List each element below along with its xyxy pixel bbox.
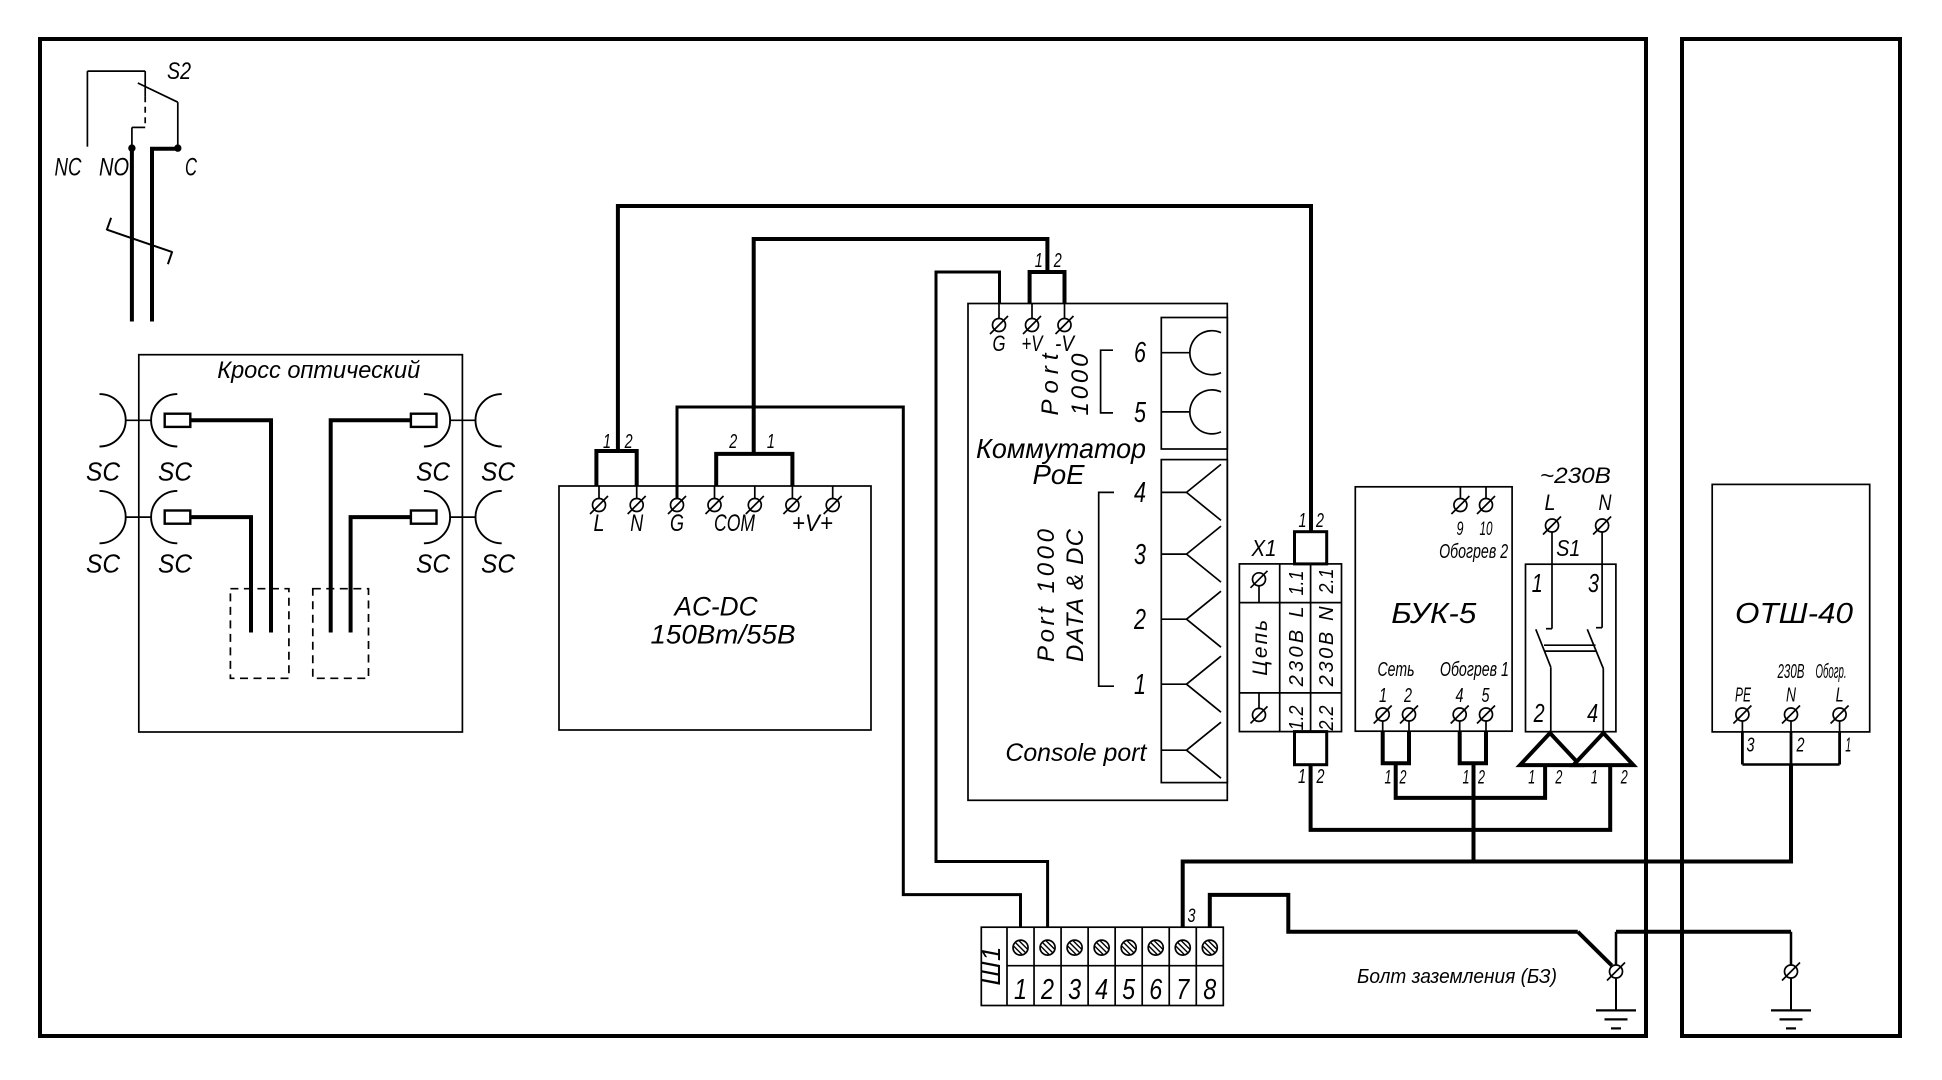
svg-text:6: 6 bbox=[1134, 337, 1147, 369]
svg-text:1: 1 bbox=[603, 431, 611, 453]
svg-text:1: 1 bbox=[1035, 250, 1043, 272]
svg-text:1: 1 bbox=[1463, 768, 1470, 789]
svg-text:4: 4 bbox=[1134, 477, 1146, 509]
svg-text:1: 1 bbox=[1134, 669, 1146, 701]
svg-text:2: 2 bbox=[1316, 766, 1325, 788]
svg-text:L: L bbox=[1545, 490, 1556, 515]
svg-text:~230В: ~230В bbox=[1540, 463, 1611, 488]
svg-text:G: G bbox=[670, 510, 684, 537]
svg-text:+V+: +V+ bbox=[792, 510, 833, 537]
svg-text:5: 5 bbox=[1482, 685, 1491, 707]
svg-text:DATA & DC: DATA & DC bbox=[1062, 528, 1089, 662]
svg-text:SC: SC bbox=[86, 549, 120, 579]
svg-text:2.2: 2.2 bbox=[1316, 706, 1338, 732]
svg-text:C: C bbox=[185, 154, 198, 182]
svg-text:2: 2 bbox=[1133, 604, 1146, 636]
svg-text:1.1: 1.1 bbox=[1286, 571, 1308, 596]
svg-text:4: 4 bbox=[1456, 685, 1464, 707]
svg-text:2: 2 bbox=[1040, 974, 1054, 1006]
svg-text:NO: NO bbox=[99, 154, 129, 182]
svg-text:1.2: 1.2 bbox=[1286, 706, 1308, 731]
svg-text:3: 3 bbox=[1747, 734, 1755, 756]
svg-text:1: 1 bbox=[1298, 766, 1306, 788]
svg-text:G: G bbox=[993, 331, 1006, 356]
svg-text:7: 7 bbox=[1176, 974, 1190, 1006]
svg-text:1: 1 bbox=[1532, 568, 1543, 598]
svg-text:L: L bbox=[1836, 685, 1844, 707]
svg-text:Обогр.: Обогр. bbox=[1816, 661, 1847, 683]
svg-text:Console port: Console port bbox=[1005, 739, 1147, 767]
svg-text:AC-DC: AC-DC bbox=[673, 591, 759, 621]
svg-text:Болт заземления (БЗ): Болт заземления (БЗ) bbox=[1357, 965, 1557, 988]
svg-text:PoE: PoE bbox=[1033, 459, 1085, 490]
svg-text:S2: S2 bbox=[167, 58, 191, 85]
svg-text:PE: PE bbox=[1735, 685, 1751, 707]
svg-text:2.1: 2.1 bbox=[1316, 569, 1338, 595]
svg-text:Обогрев 1: Обогрев 1 bbox=[1440, 659, 1509, 681]
svg-text:10: 10 bbox=[1480, 519, 1493, 540]
svg-text:2: 2 bbox=[624, 431, 633, 453]
svg-text:2: 2 bbox=[1620, 768, 1628, 789]
svg-text:6: 6 bbox=[1149, 974, 1163, 1006]
svg-text:2: 2 bbox=[1555, 768, 1563, 789]
svg-text:-V: -V bbox=[1055, 331, 1076, 356]
svg-text:N: N bbox=[630, 510, 643, 537]
svg-text:S1: S1 bbox=[1556, 535, 1580, 561]
svg-text:1: 1 bbox=[1591, 768, 1598, 789]
svg-text:5: 5 bbox=[1122, 974, 1136, 1006]
svg-text:N: N bbox=[1599, 490, 1612, 515]
svg-text:2: 2 bbox=[1533, 698, 1545, 728]
svg-text:3: 3 bbox=[1588, 568, 1599, 598]
svg-text:2: 2 bbox=[1053, 250, 1062, 272]
svg-text:2: 2 bbox=[1399, 768, 1407, 789]
svg-text:1: 1 bbox=[1379, 685, 1387, 707]
svg-text:1: 1 bbox=[1014, 974, 1027, 1006]
svg-text:1: 1 bbox=[1299, 510, 1307, 532]
svg-text:COM: COM bbox=[714, 510, 755, 537]
svg-text:N: N bbox=[1786, 685, 1796, 707]
svg-text:2: 2 bbox=[1315, 510, 1324, 532]
svg-text:SC: SC bbox=[158, 549, 192, 579]
svg-text:NC: NC bbox=[55, 154, 83, 182]
svg-text:ОТШ-40: ОТШ-40 bbox=[1735, 598, 1853, 630]
svg-text:3: 3 bbox=[1068, 974, 1081, 1006]
svg-text:1: 1 bbox=[767, 431, 775, 453]
svg-text:L: L bbox=[594, 510, 605, 537]
svg-text:1: 1 bbox=[1385, 768, 1392, 789]
svg-text:4: 4 bbox=[1587, 698, 1598, 728]
svg-text:4: 4 bbox=[1095, 974, 1108, 1006]
svg-text:230В: 230В bbox=[1777, 661, 1805, 683]
svg-text:Кросс оптический: Кросс оптический bbox=[217, 357, 420, 384]
svg-text:8: 8 bbox=[1203, 974, 1216, 1006]
svg-text:SC: SC bbox=[416, 549, 450, 579]
svg-text:SC: SC bbox=[158, 457, 192, 487]
svg-text:3: 3 bbox=[1134, 539, 1146, 571]
svg-text:Цепь: Цепь bbox=[1249, 620, 1272, 676]
svg-text:+V: +V bbox=[1022, 331, 1045, 356]
svg-text:1: 1 bbox=[1528, 768, 1535, 789]
svg-text:2: 2 bbox=[1796, 734, 1805, 756]
svg-text:Ш1: Ш1 bbox=[976, 947, 1006, 986]
svg-text:SC: SC bbox=[481, 549, 515, 579]
svg-text:SC: SC bbox=[481, 457, 515, 487]
svg-text:9: 9 bbox=[1457, 519, 1464, 540]
svg-text:Сеть: Сеть bbox=[1378, 659, 1415, 681]
svg-text:2: 2 bbox=[729, 431, 738, 453]
svg-text:SC: SC bbox=[86, 457, 120, 487]
svg-text:Обогрев 2: Обогрев 2 bbox=[1439, 541, 1508, 563]
svg-text:2: 2 bbox=[1403, 685, 1412, 707]
svg-text:2: 2 bbox=[1477, 768, 1485, 789]
svg-text:3: 3 bbox=[1188, 906, 1196, 927]
svg-text:150Вт/55В: 150Вт/55В bbox=[651, 619, 796, 649]
svg-text:1: 1 bbox=[1845, 734, 1851, 756]
svg-text:X1: X1 bbox=[1251, 535, 1277, 561]
svg-text:5: 5 bbox=[1134, 397, 1147, 429]
svg-text:SC: SC bbox=[416, 457, 450, 487]
svg-text:БУК-5: БУК-5 bbox=[1391, 598, 1477, 630]
